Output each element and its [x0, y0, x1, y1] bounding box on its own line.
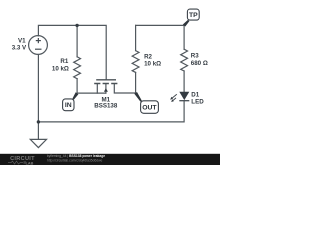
svg-text:3.3 V: 3.3 V: [12, 44, 27, 51]
svg-text:OUT: OUT: [142, 104, 157, 111]
svg-text:LAB: LAB: [26, 161, 34, 165]
svg-text:BSS138: BSS138: [94, 103, 118, 110]
svg-text:D1: D1: [191, 91, 199, 98]
svg-text:R1: R1: [60, 58, 68, 65]
svg-text:TP: TP: [189, 12, 198, 19]
svg-text:IN: IN: [65, 102, 72, 109]
svg-text:R3: R3: [191, 52, 199, 59]
svg-text:10 kΩ: 10 kΩ: [52, 66, 69, 73]
svg-text:V1: V1: [18, 37, 26, 44]
svg-text:680 Ω: 680 Ω: [191, 60, 208, 67]
svg-text:http://circuitlab.com/c/dq46ta: http://circuitlab.com/c/dq46ta35d6dwe: [47, 158, 103, 162]
svg-text:LED: LED: [191, 99, 204, 106]
svg-text:10 kΩ: 10 kΩ: [144, 60, 161, 67]
